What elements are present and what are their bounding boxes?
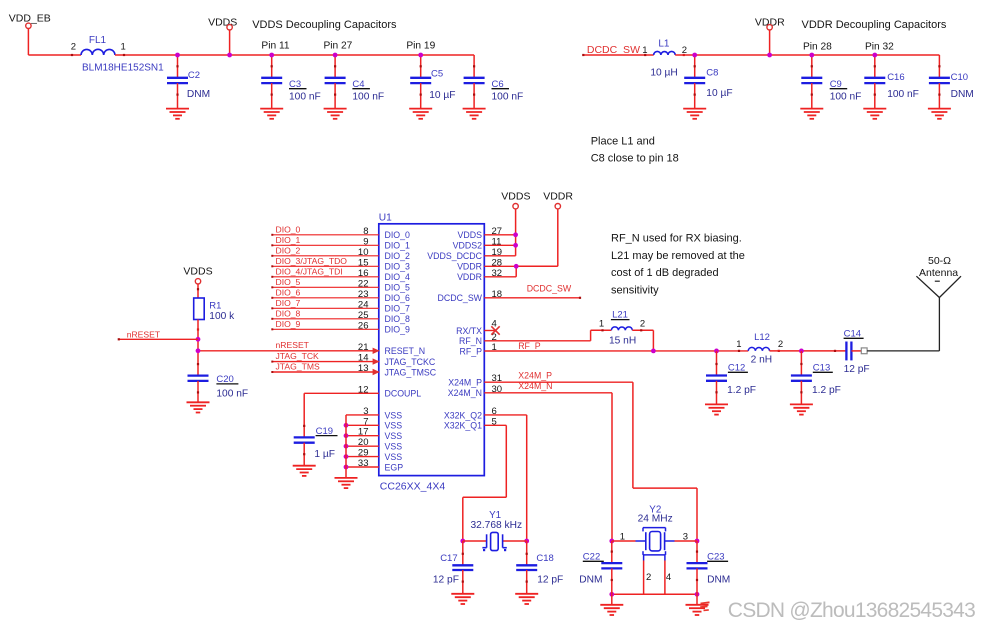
svg-text:12: 12 xyxy=(358,384,369,395)
svg-text:DNM: DNM xyxy=(187,89,210,100)
svg-text:C2: C2 xyxy=(188,70,200,81)
svg-text:CSDN @Zhou13682545343: CSDN @Zhou13682545343 xyxy=(728,599,975,622)
svg-text:DIO_7: DIO_7 xyxy=(276,298,301,308)
svg-text:26: 26 xyxy=(358,320,369,331)
svg-text:Pin 11: Pin 11 xyxy=(261,41,289,52)
svg-text:RF_P: RF_P xyxy=(518,341,541,351)
svg-text:DIO_0: DIO_0 xyxy=(276,224,301,234)
svg-text:X24M_N: X24M_N xyxy=(518,381,552,391)
svg-text:20: 20 xyxy=(358,437,369,448)
svg-text:10 µH: 10 µH xyxy=(650,68,677,79)
svg-text:X24M_P: X24M_P xyxy=(448,378,482,388)
svg-text:DIO_9: DIO_9 xyxy=(385,325,411,335)
svg-text:DIO_3: DIO_3 xyxy=(385,262,411,272)
svg-text:X24M_N: X24M_N xyxy=(448,388,482,398)
svg-text:DIO_1: DIO_1 xyxy=(385,241,411,251)
svg-text:sensitivity: sensitivity xyxy=(611,284,659,296)
svg-text:1 µF: 1 µF xyxy=(314,449,335,460)
svg-text:Pin 28: Pin 28 xyxy=(803,42,832,53)
svg-text:JTAG_TCK: JTAG_TCK xyxy=(276,351,320,361)
svg-text:4: 4 xyxy=(666,572,671,583)
svg-text:10 µF: 10 µF xyxy=(706,88,732,99)
svg-text:DIO_5: DIO_5 xyxy=(385,283,411,293)
svg-text:C8: C8 xyxy=(706,67,718,78)
svg-text:VDDS_DCDC: VDDS_DCDC xyxy=(427,251,482,261)
svg-text:32.768 kHz: 32.768 kHz xyxy=(471,520,523,531)
svg-text:U1: U1 xyxy=(379,213,392,224)
svg-text:VSS: VSS xyxy=(385,410,403,420)
svg-text:100 nF: 100 nF xyxy=(216,388,248,399)
svg-text:1: 1 xyxy=(736,339,741,350)
svg-text:Pin 19: Pin 19 xyxy=(406,41,435,52)
svg-text:Pin 27: Pin 27 xyxy=(323,41,352,52)
svg-text:1.2 pF: 1.2 pF xyxy=(812,385,841,396)
svg-text:3: 3 xyxy=(683,532,688,543)
svg-text:100 nF: 100 nF xyxy=(492,91,524,102)
svg-text:DCDC_SW: DCDC_SW xyxy=(527,284,572,294)
svg-text:13: 13 xyxy=(358,363,369,374)
svg-text:22: 22 xyxy=(358,278,369,289)
svg-text:3: 3 xyxy=(363,406,368,417)
svg-text:JTAG_TCKC: JTAG_TCKC xyxy=(385,357,436,367)
svg-text:14: 14 xyxy=(358,353,369,364)
svg-text:FL1: FL1 xyxy=(89,35,107,46)
svg-text:DIO_1: DIO_1 xyxy=(276,235,301,245)
svg-text:VSS: VSS xyxy=(385,431,403,441)
svg-text:24 MHz: 24 MHz xyxy=(638,513,673,524)
svg-text:VDDR: VDDR xyxy=(457,262,482,272)
svg-text:21: 21 xyxy=(358,342,369,353)
svg-text:DCOUPL: DCOUPL xyxy=(385,389,422,399)
svg-text:15 nH: 15 nH xyxy=(609,336,636,347)
svg-text:100 k: 100 k xyxy=(209,311,235,322)
svg-text:JTAG_TMS: JTAG_TMS xyxy=(276,361,321,371)
svg-text:BLM18HE152SN1: BLM18HE152SN1 xyxy=(82,63,164,74)
svg-text:cost of 1 dB degraded: cost of 1 dB degraded xyxy=(611,267,719,279)
svg-text:DNM: DNM xyxy=(951,89,974,100)
svg-text:10 µF: 10 µF xyxy=(429,90,455,101)
svg-text:15: 15 xyxy=(358,257,369,268)
svg-text:DIO_9: DIO_9 xyxy=(276,319,301,329)
svg-text:DIO_2: DIO_2 xyxy=(385,251,411,261)
svg-text:100 nF: 100 nF xyxy=(289,91,321,102)
svg-text:2: 2 xyxy=(71,42,76,53)
svg-text:nRESET: nRESET xyxy=(127,330,161,340)
svg-text:RX/TX: RX/TX xyxy=(456,326,482,336)
svg-text:50-Ω: 50-Ω xyxy=(928,255,951,267)
svg-text:1.2 pF: 1.2 pF xyxy=(727,385,756,396)
svg-text:VDDS: VDDS xyxy=(458,230,483,240)
svg-text:DNM: DNM xyxy=(579,574,602,585)
svg-text:X24M_P: X24M_P xyxy=(518,370,552,380)
svg-text:DIO_3/JTAG_TDO: DIO_3/JTAG_TDO xyxy=(276,256,348,266)
svg-text:23: 23 xyxy=(358,289,369,300)
svg-text:DIO_6: DIO_6 xyxy=(276,287,301,297)
svg-text:L1: L1 xyxy=(658,38,670,49)
svg-text:8: 8 xyxy=(363,226,368,237)
svg-text:10: 10 xyxy=(358,247,369,258)
svg-text:CC26XX_4X4: CC26XX_4X4 xyxy=(380,480,446,492)
svg-text:L21 may be removed at the: L21 may be removed at the xyxy=(611,250,745,262)
svg-text:2: 2 xyxy=(640,318,645,329)
svg-text:RF_N used for RX biasing.: RF_N used for RX biasing. xyxy=(611,233,742,245)
svg-text:C8 close to pin 18: C8 close to pin 18 xyxy=(591,153,679,165)
svg-text:12 pF: 12 pF xyxy=(433,575,459,586)
svg-text:DCDC_SW: DCDC_SW xyxy=(587,44,640,56)
svg-text:C18: C18 xyxy=(536,553,553,564)
svg-text:12 pF: 12 pF xyxy=(537,575,563,586)
svg-text:DIO_2: DIO_2 xyxy=(276,245,301,255)
svg-text:RESET_N: RESET_N xyxy=(385,346,426,356)
svg-text:C5: C5 xyxy=(431,69,443,80)
svg-text:EGP: EGP xyxy=(385,462,404,472)
svg-text:Place L1 and: Place L1 and xyxy=(591,135,655,147)
svg-text:VSS: VSS xyxy=(385,452,403,462)
svg-text:VSS: VSS xyxy=(385,421,403,431)
svg-text:DIO_4: DIO_4 xyxy=(385,272,411,282)
svg-text:VDD_EB: VDD_EB xyxy=(9,13,51,25)
svg-text:DIO_7: DIO_7 xyxy=(385,304,411,314)
svg-text:VSS: VSS xyxy=(385,442,403,452)
svg-text:C16: C16 xyxy=(887,72,904,83)
svg-text:DNM: DNM xyxy=(707,574,730,585)
svg-text:X32K_Q1: X32K_Q1 xyxy=(444,421,482,431)
svg-text:33: 33 xyxy=(358,458,369,469)
svg-text:Pin 32: Pin 32 xyxy=(865,42,894,53)
svg-text:17: 17 xyxy=(358,427,369,438)
svg-text:2: 2 xyxy=(646,572,651,583)
svg-text:2 nH: 2 nH xyxy=(751,355,773,366)
svg-text:L12: L12 xyxy=(754,332,770,343)
svg-text:9: 9 xyxy=(363,236,368,247)
svg-text:Antenna: Antenna xyxy=(919,267,958,279)
svg-text:100 nF: 100 nF xyxy=(352,91,384,102)
svg-text:VDDR Decoupling Capacitors: VDDR Decoupling Capacitors xyxy=(802,19,947,31)
svg-text:C10: C10 xyxy=(951,72,968,83)
svg-text:1: 1 xyxy=(620,532,625,543)
svg-text:VDDS2: VDDS2 xyxy=(453,241,482,251)
svg-text:RF_N: RF_N xyxy=(459,336,482,346)
svg-text:DIO_4/JTAG_TDI: DIO_4/JTAG_TDI xyxy=(276,266,343,276)
svg-text:DIO_8: DIO_8 xyxy=(385,314,411,324)
svg-text:X32K_Q2: X32K_Q2 xyxy=(444,410,482,420)
svg-text:JTAG_TMSC: JTAG_TMSC xyxy=(385,367,437,377)
svg-text:VDDS: VDDS xyxy=(183,266,212,278)
svg-text:DIO_0: DIO_0 xyxy=(385,230,411,240)
svg-text:29: 29 xyxy=(358,448,369,459)
svg-text:VDDR: VDDR xyxy=(457,272,482,282)
svg-text:C17: C17 xyxy=(440,553,457,564)
svg-text:VDDS Decoupling Capacitors: VDDS Decoupling Capacitors xyxy=(252,19,397,31)
svg-text:DCDC_SW: DCDC_SW xyxy=(438,293,483,303)
svg-text:nRESET: nRESET xyxy=(276,340,310,350)
svg-text:RF_P: RF_P xyxy=(460,346,483,356)
svg-text:DIO_6: DIO_6 xyxy=(385,293,411,303)
svg-text:100 nF: 100 nF xyxy=(887,89,919,100)
svg-text:7: 7 xyxy=(363,416,368,427)
svg-text:VDDS: VDDS xyxy=(501,190,530,202)
svg-text:24: 24 xyxy=(358,299,369,310)
svg-text:DIO_8: DIO_8 xyxy=(276,308,301,318)
svg-text:12 pF: 12 pF xyxy=(844,364,870,375)
svg-text:VDDR: VDDR xyxy=(543,190,573,202)
svg-text:1: 1 xyxy=(121,42,126,53)
svg-text:1: 1 xyxy=(599,318,604,329)
svg-text:2: 2 xyxy=(778,339,783,350)
svg-text:16: 16 xyxy=(358,268,369,279)
svg-text:25: 25 xyxy=(358,310,369,321)
svg-text:100 nF: 100 nF xyxy=(830,91,862,102)
svg-text:DIO_5: DIO_5 xyxy=(276,277,301,287)
